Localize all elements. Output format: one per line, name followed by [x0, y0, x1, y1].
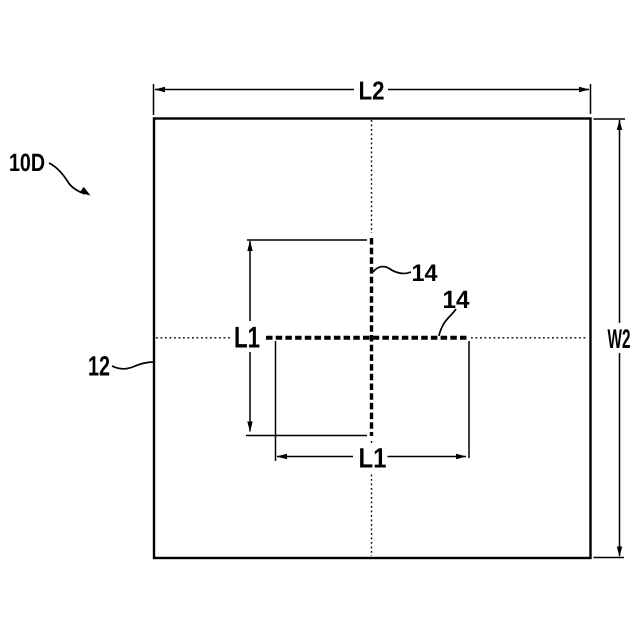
vertical centerline (dotted) below L1 label — [371, 475, 373, 557]
svg-text:12: 12 — [88, 351, 110, 382]
L1 horizontal right arrowhead — [456, 454, 467, 459]
W2 dimension line lower part — [619, 353, 621, 556]
L2 dimension: left extension tick — [153, 84, 155, 115]
L1 vertical dimension: bottom inner extension line — [246, 435, 367, 437]
leader curve from 14 to horizontal slit — [439, 309, 456, 336]
W2 bottom arrowhead — [617, 547, 622, 558]
L1 horizontal dimension: left extension line — [275, 341, 277, 461]
svg-text:L1: L1 — [234, 322, 260, 355]
L2 dimension line left part — [155, 89, 354, 91]
svg-text:10D: 10D — [9, 149, 45, 177]
substrate outline 12 (outer square) — [154, 119, 591, 559]
L1 vertical top arrowhead — [247, 241, 252, 252]
horizontal centerline (dotted) right segment — [471, 337, 588, 339]
svg-text:14: 14 — [412, 260, 439, 287]
svg-text:L1: L1 — [359, 443, 387, 474]
10D leader arrowhead — [80, 187, 91, 196]
L1 vertical bottom arrowhead — [247, 422, 252, 433]
leader line from 12 to left edge of outline — [112, 362, 153, 369]
vertical centerline (dotted) lower segment — [371, 441, 373, 445]
vertical centerline (dotted) upper segment — [371, 120, 373, 233]
L1 horizontal dimension: right extension line — [468, 341, 470, 458]
W2 dimension line upper part — [619, 120, 621, 323]
leader squiggle from 14 to vertical slit — [373, 267, 411, 274]
L1 horizontal dimension line left part — [277, 456, 353, 458]
L1 vertical dimension line upper part — [249, 241, 251, 321]
W2 dimension: top extension line — [594, 118, 626, 120]
svg-text:W2: W2 — [608, 324, 631, 354]
L2 dimension line right part — [388, 89, 589, 91]
slit 14 horizontal (bold dashed) — [266, 336, 469, 340]
L1 horizontal dimension line right part — [388, 456, 467, 458]
L1 vertical dimension line lower part — [249, 352, 251, 432]
W2 dimension: bottom extension line — [594, 557, 625, 559]
W2 top arrowhead — [617, 120, 622, 131]
L2 right arrowhead — [579, 87, 590, 92]
L2 dimension: right extension tick — [590, 84, 592, 114]
leader arrow from 10D to outline — [49, 163, 85, 194]
horizontal centerline (dotted) left segment — [156, 337, 232, 339]
svg-text:L2: L2 — [359, 76, 385, 106]
slit 14 vertical (bold dashed) — [370, 238, 373, 436]
L1 vertical dimension: top inner extension line — [247, 239, 367, 241]
L2 left arrowhead — [155, 87, 166, 92]
L1 horizontal left arrowhead — [277, 454, 288, 459]
